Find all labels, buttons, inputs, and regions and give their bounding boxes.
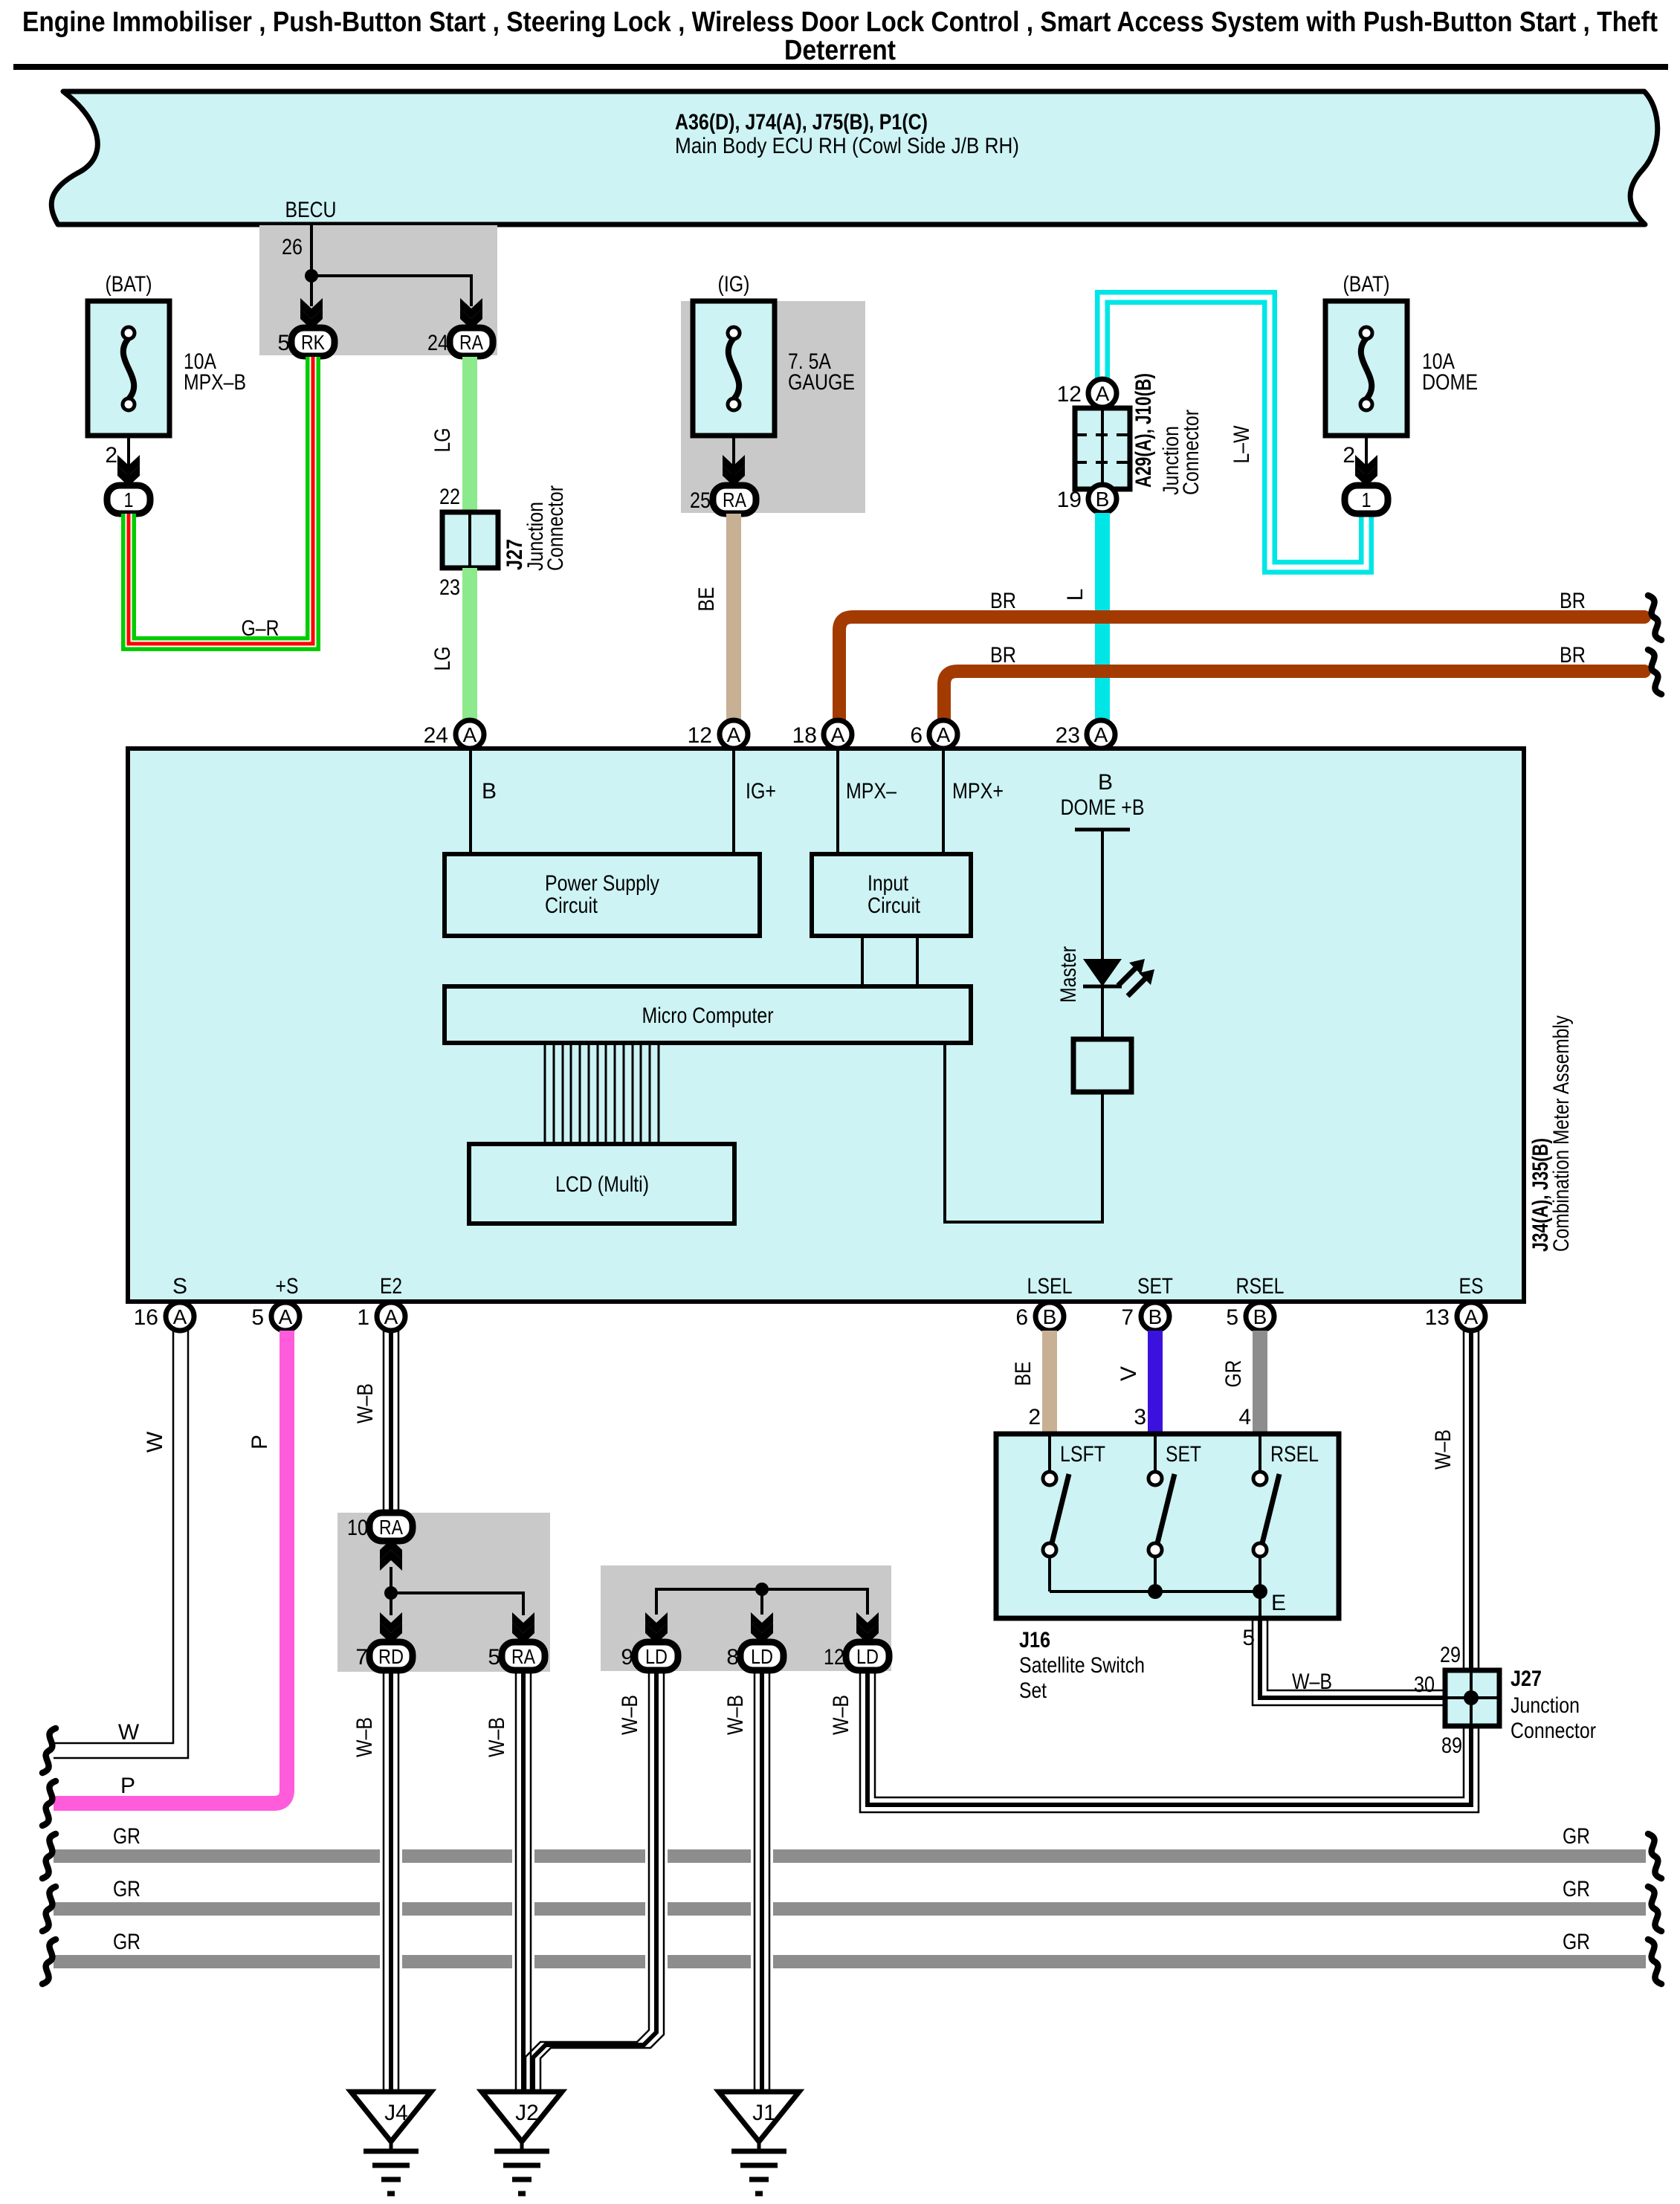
svg-text:BECU: BECU bbox=[285, 198, 337, 222]
svg-text:A: A bbox=[727, 723, 741, 746]
svg-text:GR: GR bbox=[1563, 1877, 1590, 1901]
arrow into LD 12 bbox=[856, 1612, 879, 1644]
svg-text:B: B bbox=[1098, 770, 1113, 795]
micro computer box bbox=[445, 986, 971, 1043]
svg-text:Power Supply: Power Supply bbox=[545, 871, 659, 896]
switch RSEL bbox=[1253, 1436, 1319, 1591]
svg-text:SET: SET bbox=[1137, 1274, 1173, 1299]
wire to RA 5 bbox=[391, 1593, 523, 1615]
svg-text:DOME: DOME bbox=[1422, 370, 1478, 395]
svg-text:L–W: L–W bbox=[1230, 425, 1254, 464]
break BR lower bbox=[1648, 650, 1661, 694]
arrow into RK bbox=[300, 298, 323, 329]
svg-text:23: 23 bbox=[1056, 723, 1080, 748]
wire BE from pin LSEL bbox=[1042, 1331, 1057, 1434]
svg-text:GR: GR bbox=[113, 1930, 140, 1954]
svg-text:18: 18 bbox=[792, 723, 817, 748]
svg-text:8: 8 bbox=[726, 1645, 739, 1670]
svg-text:W–B: W–B bbox=[1292, 1670, 1332, 1694]
svg-text:RK: RK bbox=[301, 331, 325, 354]
svg-text:Combination Meter Assembly: Combination Meter Assembly bbox=[1549, 1015, 1574, 1252]
junction connector J27 (right) bbox=[1445, 1670, 1499, 1726]
svg-text:2: 2 bbox=[1343, 443, 1355, 468]
svg-text:5: 5 bbox=[488, 1645, 500, 1670]
break GR bar 3 left bbox=[42, 1939, 56, 1984]
svg-text:RA: RA bbox=[723, 488, 746, 511]
svg-text:W: W bbox=[143, 1431, 167, 1452]
svg-text:LD: LD bbox=[645, 1645, 668, 1668]
svg-text:A: A bbox=[384, 1305, 398, 1328]
svg-text:A: A bbox=[1096, 382, 1110, 405]
meter pin 5 B bbox=[1246, 1302, 1274, 1331]
svg-text:9: 9 bbox=[621, 1645, 633, 1670]
title text bbox=[22, 7, 1658, 66]
svg-text:W–B: W–B bbox=[485, 1717, 509, 1757]
satellite switch set J16 box bbox=[996, 1434, 1339, 1618]
svg-text:J27: J27 bbox=[1511, 1667, 1542, 1691]
meter pin 1 A bbox=[377, 1302, 405, 1331]
svg-text:BE: BE bbox=[1011, 1362, 1036, 1386]
svg-text:16: 16 bbox=[134, 1305, 158, 1330]
svg-text:Micro Computer: Micro Computer bbox=[642, 1004, 774, 1028]
junction connector A29(A) J10(B) bbox=[1075, 408, 1130, 489]
svg-text:12: 12 bbox=[688, 723, 712, 748]
break W bbox=[42, 1728, 56, 1773]
svg-text:13: 13 bbox=[1425, 1305, 1450, 1330]
wire BECU pin 26 bbox=[310, 225, 313, 276]
svg-text:5: 5 bbox=[1242, 1626, 1255, 1650]
meter pin 16 A bbox=[166, 1302, 194, 1331]
svg-text:LSFT: LSFT bbox=[1060, 1442, 1105, 1467]
svg-text:RA: RA bbox=[459, 331, 483, 354]
svg-text:Junction: Junction bbox=[1511, 1693, 1580, 1718]
ground J1 bbox=[719, 2092, 799, 2194]
ground J4 bbox=[351, 2092, 431, 2194]
svg-text:GR: GR bbox=[1563, 1824, 1590, 1849]
break GR bar 1 right bbox=[1648, 1834, 1661, 1878]
svg-text:LSEL: LSEL bbox=[1027, 1274, 1073, 1299]
arrow into RA 25 bbox=[723, 455, 745, 486]
svg-text:BR: BR bbox=[990, 643, 1016, 668]
svg-text:RA: RA bbox=[511, 1645, 535, 1668]
ribbon micro computer to LCD bbox=[545, 1043, 659, 1144]
connector 9 LD bbox=[635, 1642, 678, 1670]
svg-text:Connector: Connector bbox=[1511, 1719, 1596, 1743]
node DOME +B bbox=[1061, 795, 1145, 830]
svg-text:23: 23 bbox=[439, 575, 460, 600]
svg-text:W–B: W–B bbox=[829, 1695, 853, 1735]
svg-text:7: 7 bbox=[355, 1645, 368, 1670]
shaded connector block RA RD RA bbox=[337, 1513, 550, 1672]
wires input circuit to micro computer bbox=[861, 936, 864, 986]
svg-text:ES: ES bbox=[1459, 1274, 1484, 1299]
connector 5 RA bbox=[502, 1642, 545, 1670]
junction dot bbox=[305, 269, 318, 282]
svg-text:A: A bbox=[173, 1305, 187, 1328]
svg-text:MPX–: MPX– bbox=[846, 779, 896, 804]
svg-text:1: 1 bbox=[124, 488, 134, 511]
svg-text:V: V bbox=[1117, 1366, 1141, 1381]
svg-text:25: 25 bbox=[690, 488, 711, 513]
wire GR from pin RSEL bbox=[1253, 1331, 1267, 1434]
svg-text:A: A bbox=[831, 723, 845, 746]
title rule bbox=[13, 64, 1668, 70]
ground J2 bbox=[482, 2092, 562, 2194]
svg-text:26: 26 bbox=[282, 235, 303, 259]
switch SET bbox=[1148, 1436, 1201, 1591]
meter pin 5 A bbox=[271, 1302, 300, 1331]
svg-text:J4: J4 bbox=[384, 2101, 408, 2125]
wire GR bar 1 bbox=[54, 1824, 1646, 1863]
svg-text:A: A bbox=[279, 1305, 293, 1328]
svg-text:Main Body ECU RH (Cowl Side J/: Main Body ECU RH (Cowl Side J/B RH) bbox=[675, 134, 1019, 158]
svg-text:B: B bbox=[1043, 1305, 1057, 1328]
arrow into LD 8 bbox=[751, 1612, 773, 1644]
resistor box bbox=[1073, 1039, 1131, 1092]
svg-text:Input: Input bbox=[868, 871, 909, 896]
svg-text:J16: J16 bbox=[1019, 1628, 1050, 1652]
svg-text:S: S bbox=[172, 1274, 187, 1299]
wire BR upper (MPX-) bbox=[839, 617, 1644, 720]
wire resistor to micro computer bbox=[945, 1043, 1102, 1222]
svg-text:DOME +B: DOME +B bbox=[1061, 795, 1145, 820]
svg-text:RA: RA bbox=[379, 1516, 403, 1539]
wire DOME+B to LED bbox=[1101, 830, 1104, 960]
svg-text:+S: +S bbox=[276, 1274, 299, 1299]
svg-text:BR: BR bbox=[990, 589, 1016, 613]
power supply circuit box bbox=[445, 854, 760, 936]
break GR bar 2 right bbox=[1648, 1887, 1661, 1931]
svg-text:24: 24 bbox=[424, 723, 448, 748]
arrow into RA bbox=[460, 298, 482, 329]
pin 12 A of A29 bbox=[1088, 379, 1117, 407]
svg-text:GR: GR bbox=[1563, 1930, 1590, 1954]
svg-text:W: W bbox=[118, 1720, 140, 1745]
svg-text:6: 6 bbox=[910, 723, 923, 748]
connector 7 RD bbox=[369, 1642, 413, 1670]
svg-text:A36(D), J74(A), J75(B), P1(C): A36(D), J74(A), J75(B), P1(C) bbox=[675, 110, 928, 135]
wire W-B from RA 5 to ground J2 bbox=[515, 1670, 517, 2092]
wire GAUGE fuse pin 25 bbox=[732, 436, 735, 480]
svg-text:MPX+: MPX+ bbox=[952, 779, 1004, 804]
meter pin 6 A bbox=[929, 720, 957, 749]
svg-text:B: B bbox=[1253, 1305, 1267, 1328]
wire V from pin SET bbox=[1148, 1331, 1163, 1434]
svg-text:G–R: G–R bbox=[242, 616, 280, 641]
svg-text:B: B bbox=[1096, 488, 1110, 511]
svg-text:A29(A), J10(B): A29(A), J10(B) bbox=[1131, 373, 1156, 488]
connector 12 LD bbox=[846, 1642, 889, 1670]
svg-text:5: 5 bbox=[251, 1305, 264, 1330]
svg-text:22: 22 bbox=[439, 485, 460, 509]
break GR bar 2 left bbox=[42, 1887, 56, 1931]
svg-text:Engine Immobiliser , Push-Butt: Engine Immobiliser , Push-Button Start ,… bbox=[22, 7, 1658, 38]
svg-text:W–B: W–B bbox=[352, 1717, 377, 1757]
wire fuse MPX-B pin 2 bbox=[127, 436, 130, 480]
wire L from A29 to meter pin 23 bbox=[1095, 513, 1110, 720]
svg-text:RSEL: RSEL bbox=[1236, 1274, 1285, 1299]
connector 1 (MPX-B) bbox=[107, 485, 150, 514]
svg-text:Connector: Connector bbox=[1179, 410, 1204, 495]
meter pin 13 A bbox=[1457, 1302, 1485, 1331]
svg-text:19: 19 bbox=[1057, 488, 1082, 512]
svg-text:A: A bbox=[1464, 1305, 1479, 1328]
svg-text:RD: RD bbox=[378, 1645, 404, 1668]
arrow into connector 1 bbox=[117, 455, 140, 486]
svg-text:W–B: W–B bbox=[1431, 1429, 1456, 1470]
LED Master bbox=[1083, 959, 1154, 996]
meter pin 23 A bbox=[1087, 720, 1115, 749]
shaded connector block LD LD LD bbox=[601, 1565, 891, 1671]
svg-text:Deterrent: Deterrent bbox=[784, 35, 896, 66]
arrow into LD 9 bbox=[645, 1612, 668, 1644]
wire W-B switch E to J27 pin 30 bbox=[1253, 1618, 1445, 1705]
wire W-B from LD 12 to J27 bbox=[875, 1670, 1464, 1797]
svg-text:BR: BR bbox=[1560, 643, 1586, 668]
svg-text:LCD (Multi): LCD (Multi) bbox=[555, 1172, 649, 1197]
svg-text:GR: GR bbox=[1221, 1360, 1246, 1388]
connector 5 RK bbox=[291, 328, 335, 356]
svg-text:2: 2 bbox=[105, 443, 117, 468]
wire W-B from RD 7 to ground J4 bbox=[383, 1670, 385, 2092]
svg-text:RSEL: RSEL bbox=[1270, 1442, 1319, 1467]
svg-text:1: 1 bbox=[357, 1305, 369, 1330]
wire W-B from pin ES to J27 bbox=[1463, 1331, 1465, 1670]
wire W-B from LD 8 to ground J1 bbox=[754, 1670, 756, 2092]
svg-text:29: 29 bbox=[1440, 1643, 1461, 1667]
svg-text:6: 6 bbox=[1015, 1305, 1028, 1330]
wire DOME fuse pin 2 bbox=[1365, 436, 1368, 480]
svg-text:GAUGE: GAUGE bbox=[788, 370, 855, 395]
connector 1 (DOME) bbox=[1345, 485, 1388, 514]
svg-text:(BAT): (BAT) bbox=[106, 272, 152, 297]
wire B pin to power supply bbox=[469, 749, 472, 854]
svg-text:J1: J1 bbox=[752, 2101, 776, 2125]
fuse 10A DOME bbox=[1325, 272, 1478, 436]
wire to RA bbox=[311, 276, 471, 306]
connector 8 LD bbox=[740, 1642, 784, 1670]
connector 10 RA bbox=[369, 1513, 413, 1541]
svg-text:P: P bbox=[248, 1435, 272, 1450]
wire L-W loop bbox=[1102, 297, 1366, 567]
Main Body ECU band A36(D) J74(A) J75(B) P1(C) bbox=[51, 91, 1658, 224]
wire G-R from connector 1 to RK bbox=[129, 357, 313, 644]
svg-text:89: 89 bbox=[1441, 1733, 1462, 1758]
svg-text:LD: LD bbox=[751, 1645, 773, 1668]
arrow up into RA 10 bbox=[380, 1539, 402, 1571]
svg-text:10: 10 bbox=[347, 1516, 368, 1540]
svg-text:E: E bbox=[1271, 1591, 1286, 1615]
wire to RK bbox=[310, 276, 313, 306]
wire GR bar 3 bbox=[54, 1930, 1646, 1968]
break GR bar 3 right bbox=[1648, 1939, 1661, 1984]
LCD (Multi) box bbox=[469, 1144, 734, 1224]
svg-text:Connector: Connector bbox=[543, 485, 568, 571]
svg-text:W–B: W–B bbox=[353, 1383, 378, 1423]
arrow into RA 5 bbox=[512, 1612, 534, 1644]
meter pin 18 A bbox=[824, 720, 852, 749]
connector 24 RA bbox=[450, 328, 493, 356]
svg-text:3: 3 bbox=[1134, 1405, 1146, 1429]
svg-text:Master: Master bbox=[1056, 946, 1081, 1003]
svg-text:GR: GR bbox=[113, 1877, 140, 1901]
break BR upper bbox=[1648, 595, 1661, 640]
svg-text:Circuit: Circuit bbox=[868, 893, 921, 918]
meter pin 24 A bbox=[456, 720, 484, 749]
svg-text:24: 24 bbox=[427, 331, 448, 355]
svg-text:MPX–B: MPX–B bbox=[184, 370, 246, 395]
wire MPX+ to input circuit bbox=[942, 749, 945, 854]
svg-text:W–B: W–B bbox=[723, 1695, 748, 1735]
arrow into RD 7 bbox=[380, 1612, 402, 1644]
svg-text:(IG): (IG) bbox=[718, 272, 750, 297]
svg-text:W–B: W–B bbox=[618, 1695, 642, 1735]
svg-text:LG: LG bbox=[430, 428, 455, 453]
svg-text:P: P bbox=[120, 1774, 135, 1798]
break P bbox=[42, 1781, 56, 1826]
junction connector J27 (LG) bbox=[442, 512, 498, 568]
wire MPX- to input circuit bbox=[836, 749, 839, 854]
svg-text:A: A bbox=[937, 723, 951, 746]
svg-text:BR: BR bbox=[1560, 589, 1586, 613]
svg-text:5: 5 bbox=[277, 331, 290, 355]
svg-text:B: B bbox=[1148, 1305, 1163, 1328]
svg-text:4: 4 bbox=[1238, 1405, 1251, 1429]
svg-text:IG+: IG+ bbox=[746, 779, 776, 804]
svg-text:12: 12 bbox=[824, 1645, 844, 1670]
fuse 7.5A GAUGE bbox=[693, 272, 855, 436]
arrow into connector 1 (DOME) bbox=[1355, 455, 1377, 486]
fuse 10A MPX-B bbox=[88, 272, 246, 436]
svg-text:2: 2 bbox=[1028, 1405, 1041, 1429]
svg-text:1: 1 bbox=[1362, 488, 1372, 511]
svg-text:A: A bbox=[1094, 723, 1108, 746]
meter pin 12 A bbox=[720, 720, 748, 749]
svg-text:B: B bbox=[482, 779, 497, 804]
wire LG from J27 to meter pin 24 bbox=[462, 568, 477, 720]
svg-text:Circuit: Circuit bbox=[545, 893, 598, 918]
svg-text:Set: Set bbox=[1019, 1678, 1047, 1703]
svg-text:J2: J2 bbox=[515, 2101, 539, 2125]
svg-text:LD: LD bbox=[856, 1645, 879, 1668]
break GR bar 1 left bbox=[42, 1834, 56, 1878]
wire IG+ pin to power supply bbox=[732, 749, 735, 854]
svg-text:7: 7 bbox=[1121, 1305, 1134, 1330]
svg-text:L: L bbox=[1063, 589, 1088, 601]
shaded junction block under BECU bbox=[259, 225, 497, 355]
wire P from pin +S bbox=[54, 1331, 287, 1803]
wire GR bar 2 bbox=[54, 1877, 1646, 1916]
wire W-B from pin E2 bbox=[383, 1331, 385, 1527]
svg-text:BE: BE bbox=[694, 587, 719, 612]
switch LSFT bbox=[1043, 1436, 1105, 1591]
shaded block around GAUGE fuse bbox=[681, 301, 865, 513]
input circuit box bbox=[812, 854, 971, 936]
svg-text:12: 12 bbox=[1057, 382, 1082, 407]
svg-text:GR: GR bbox=[113, 1824, 140, 1849]
svg-text:5: 5 bbox=[1226, 1305, 1238, 1330]
meter pin 7 B bbox=[1141, 1302, 1169, 1331]
node E bbox=[1253, 1584, 1267, 1599]
wire LED to resistor bbox=[1101, 986, 1104, 1039]
combination meter assembly box J34(A) J35(B) bbox=[128, 749, 1524, 1302]
wire BE from RA 25 to meter pin 12 bbox=[726, 514, 741, 720]
svg-text:30: 30 bbox=[1414, 1673, 1435, 1697]
pin 19 B of A29 bbox=[1088, 485, 1117, 513]
wire W-B from LD 9 to ground J2 bbox=[526, 1670, 649, 2092]
connector 25 RA bbox=[713, 485, 756, 514]
wire RA10 junction bbox=[390, 1567, 392, 1593]
wire LD bus bbox=[656, 1589, 868, 1615]
wire BR lower (MPX+) bbox=[944, 671, 1644, 720]
switch common rail bbox=[1050, 1590, 1260, 1593]
wire LG from RA 24 to J27 bbox=[462, 357, 477, 512]
svg-text:A: A bbox=[463, 723, 477, 746]
wire to RD 7 bbox=[390, 1593, 392, 1615]
wire W from pin S bbox=[54, 1331, 173, 1743]
svg-text:Satellite Switch: Satellite Switch bbox=[1019, 1653, 1145, 1678]
svg-text:(BAT): (BAT) bbox=[1343, 272, 1390, 297]
svg-text:E2: E2 bbox=[380, 1274, 402, 1299]
svg-text:SET: SET bbox=[1166, 1442, 1201, 1467]
svg-text:LG: LG bbox=[430, 647, 455, 671]
meter pin 6 B bbox=[1036, 1302, 1064, 1331]
